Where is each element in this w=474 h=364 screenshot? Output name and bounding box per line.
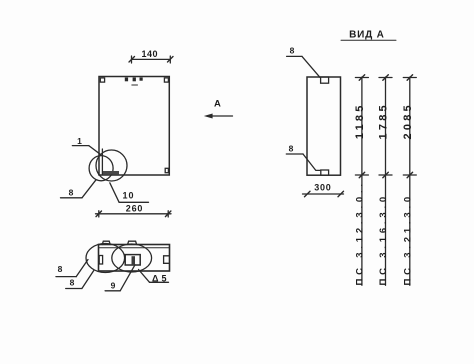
small dash below loops [132, 84, 138, 86]
plan inner line [99, 247, 170, 249]
vertical dim line 2 [379, 75, 392, 286]
vertical dim line 3 [403, 75, 416, 286]
svg-text:8: 8 [69, 187, 74, 197]
callout 8 side bottom [286, 154, 320, 170]
callout 8 side top [287, 56, 320, 77]
top notch [321, 77, 329, 83]
svg-text:ПС 3.21.3.0: ПС 3.21.3.0 [402, 193, 413, 285]
svg-text:8: 8 [290, 46, 295, 56]
detail circle A [89, 156, 113, 181]
bottom notch [321, 170, 329, 175]
svg-text:ПС 3.16.3.0: ПС 3.16.3.0 [378, 193, 389, 285]
callout 10 [110, 183, 149, 203]
svg-text:2085: 2085 [402, 102, 414, 139]
support pad (filled) [103, 171, 119, 174]
weld mark delta 5 [139, 270, 169, 283]
svg-text:9: 9 [111, 281, 116, 291]
lifting loop marks on top edge [125, 78, 143, 82]
svg-text:300: 300 [314, 183, 331, 193]
svg-text:Δ5: Δ5 [152, 273, 169, 283]
svg-text:1785: 1785 [378, 102, 390, 139]
svg-text:1185: 1185 [354, 102, 366, 139]
svg-text:10: 10 [122, 191, 134, 201]
lifting loop 1 [102, 241, 110, 244]
corner anchor bottom-right [165, 168, 168, 172]
corner anchor top-left [100, 78, 104, 82]
panel front view outline [99, 77, 169, 176]
svg-text:1: 1 [77, 136, 82, 146]
callout 9 [105, 265, 135, 291]
corner rib line [101, 149, 103, 174]
svg-text:8: 8 [70, 278, 75, 288]
middle embed core (filled) [132, 256, 136, 265]
plan detail circle left [86, 244, 125, 273]
middle embed plate [125, 255, 140, 265]
svg-text:ВИД А: ВИД А [349, 30, 385, 41]
panel side view outline [307, 77, 341, 175]
callout 8 front [61, 180, 97, 198]
svg-text:8: 8 [289, 143, 294, 153]
callout 8 plan upper [56, 260, 88, 277]
left embed bracket [99, 256, 102, 265]
svg-text:8: 8 [58, 264, 63, 274]
callout 8 plan lower [66, 271, 94, 289]
title underline [341, 39, 396, 41]
panel plan view bar [99, 245, 170, 272]
detail circle B [96, 150, 127, 181]
dimension 300 [303, 191, 344, 197]
svg-text:ПС 3.12.3.0..: ПС 3.12.3.0.. [354, 180, 365, 285]
dimension 140 [129, 56, 173, 63]
svg-text:140: 140 [142, 49, 159, 59]
view direction arrow A [204, 114, 233, 119]
corner anchor top-right [164, 78, 168, 82]
dimension 260 [96, 211, 172, 217]
right embed bracket [164, 256, 169, 263]
svg-text:А: А [214, 99, 221, 110]
svg-text:260: 260 [126, 204, 143, 214]
lifting loop 2 [128, 241, 137, 244]
callout 1 [72, 146, 101, 155]
vertical dim line 1 [355, 75, 368, 286]
plan detail circle right [112, 244, 152, 272]
